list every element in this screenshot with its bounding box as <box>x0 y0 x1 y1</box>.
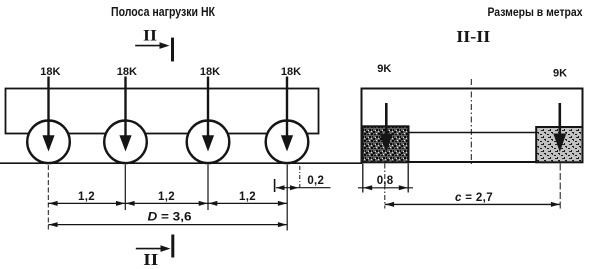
svg-text:9K: 9K <box>553 68 567 80</box>
0,8 extension line right <box>407 164 409 193</box>
svg-text:18K: 18K <box>117 66 137 78</box>
svg-text:18K: 18K <box>281 66 301 78</box>
ground line <box>0 162 362 164</box>
extension line wheel 2 <box>124 165 126 211</box>
force arrow 4 <box>281 77 293 152</box>
strip line between blocks <box>409 132 537 134</box>
right contact block (shaded) <box>536 127 582 162</box>
svg-text:0,8: 0,8 <box>377 175 394 187</box>
dimension c = 2,7 <box>385 192 560 207</box>
svg-text:II-II: II-II <box>456 27 490 46</box>
dimension 0,8 <box>358 175 413 191</box>
block centerline right <box>559 164 561 212</box>
svg-text:Полоса нагрузки НК: Полоса нагрузки НК <box>111 4 215 19</box>
extension line wheel 3 <box>207 165 209 211</box>
section body rectangle <box>362 89 583 163</box>
svg-text:1,2: 1,2 <box>239 191 256 203</box>
dimension 1,2 span 2 <box>125 191 208 206</box>
force arrow 1 <box>42 77 54 152</box>
svg-text:II: II <box>143 28 157 45</box>
svg-text:D = 3,6: D = 3,6 <box>148 209 192 223</box>
load strip rectangle <box>6 89 319 134</box>
extension centerline wheel 4 <box>286 165 288 231</box>
force arrow 3 <box>202 77 214 152</box>
dimension 0,2 left edge line <box>274 179 276 192</box>
dimension 1,2 span 3 <box>208 191 287 206</box>
left contact block (hatched) <box>363 126 409 162</box>
svg-text:1,2: 1,2 <box>158 191 175 203</box>
section marker II (top) <box>135 28 174 62</box>
svg-text:II: II <box>143 250 158 269</box>
svg-text:1,2: 1,2 <box>78 191 95 203</box>
wheel circle 1 <box>27 121 70 164</box>
0,8 extension line left <box>362 164 364 193</box>
wheel circle 2 <box>104 121 147 164</box>
dimension 0,2 <box>276 175 331 190</box>
block centerline left <box>384 164 386 209</box>
svg-text:0,2: 0,2 <box>307 175 324 187</box>
dimension D = 3,6 <box>48 209 287 227</box>
svg-text:18K: 18K <box>40 66 60 78</box>
dimension 0,2 right edge dash-dot line <box>299 166 301 190</box>
svg-text:18K: 18K <box>200 66 220 78</box>
svg-text:Размеры в метрах: Размеры в метрах <box>488 7 584 19</box>
force arrow 2 <box>119 77 131 152</box>
section centerline <box>470 79 472 164</box>
section marker II (bottom) <box>136 235 175 269</box>
wheel circle 4 <box>266 121 309 164</box>
extension centerline wheel 1 <box>47 165 49 230</box>
svg-text:9K: 9K <box>377 63 391 75</box>
wheel circle 3 <box>187 121 230 164</box>
force arrow right block <box>553 103 566 152</box>
force arrow left block <box>380 103 393 152</box>
svg-text:c = 2,7: c = 2,7 <box>455 192 493 204</box>
dimension 1,2 span 1 <box>48 191 125 206</box>
